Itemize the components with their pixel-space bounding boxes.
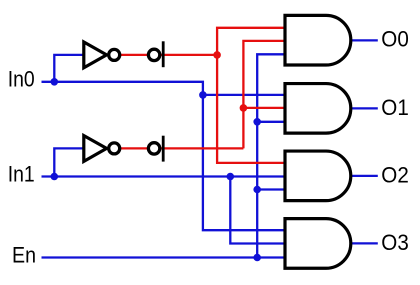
wire En branch to AND gate U3 pin3 [257,188,285,190]
wire En riser to AND gate U1 pin3 [257,54,285,257]
wire /In0 from inverter U1 output through negation marker [120,54,217,56]
junction /In1 at gate U2 branch [240,104,248,112]
svg-text:In1: In1 [8,162,35,187]
svg-text:O0: O0 [381,27,409,52]
junction En at gate U2 branch [253,118,261,126]
inverter U1 triangle [84,42,107,68]
junction En at gate U3 branch [253,186,261,194]
wire /In1 riser to AND gate U1 pin2 [243,41,285,148]
AND gate U3 (output O2) [285,151,351,201]
wire /In1 branch to AND gate U2 pin2 [243,107,285,109]
negation marker on /In0 wire (bar) [162,41,165,67]
wire output O2 [352,175,378,177]
negation marker on /In1 wire (bubble) [148,143,159,154]
wire In1 main run (label to AND gate U3 pin2) [42,175,286,177]
junction /In0 at riser [213,51,221,59]
inverter U2 triangle [84,136,107,162]
negation marker on /In1 wire (bar) [162,136,165,162]
svg-text:O2: O2 [381,162,409,187]
negation marker on /In0 wire (bubble) [148,49,159,60]
AND gate U4 (output O3) [285,219,351,269]
svg-text:O1: O1 [381,95,409,120]
wire In0 branch to inverter U1 input [54,55,85,82]
junction In1 at gate U4 branch [227,173,235,181]
svg-text:O3: O3 [381,230,409,255]
wire output O3 [352,242,378,244]
wire En branch to AND gate U2 pin3 [257,121,285,123]
AND gate U2 (output O1) [285,84,351,134]
inverter U1 bubble [109,49,120,60]
junction In0 at inverter branch [51,78,59,86]
wire output O1 [352,107,378,109]
wire /In1 from inverter U2 output through negation marker [120,147,243,149]
wire In0 main run (label to corner, down, to AND gate U4 pin1) [42,82,286,230]
AND gate U1 (output O0) [285,15,351,65]
svg-text:In0: In0 [8,67,35,92]
wire /In0 drop to AND gate U3 pin1 [217,55,285,163]
junction En at riser [253,254,261,262]
wire En main run (label to AND gate U4 pin3) [42,256,286,258]
wire output O0 [352,39,378,41]
svg-text:En: En [12,243,36,268]
junction In1 at inverter branch [51,173,59,181]
inverter U2 bubble [109,143,120,154]
wire In1 branch to inverter U2 input [54,148,85,176]
wire In1 branch to AND gate U4 pin2 [230,177,285,244]
junction In0 at gate U2 branch [199,91,207,99]
wire /In0 riser to AND gate U1 pin1 [217,28,285,55]
wire In0 branch to AND gate U2 pin1 [203,94,285,96]
